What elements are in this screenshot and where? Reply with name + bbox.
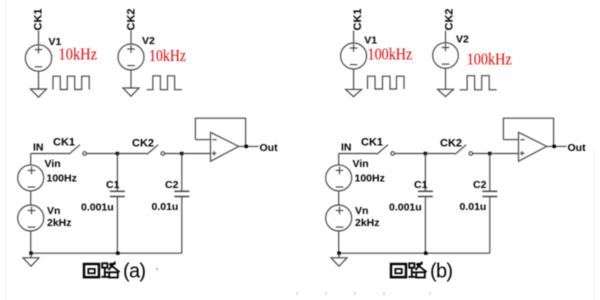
switch CK1 (S1)	[69, 145, 87, 156]
svg-text:CK1: CK1	[352, 8, 364, 30]
wire switch CK1 to node 1 (b)	[395, 153, 426, 155]
svg-text:100kHz: 100kHz	[467, 50, 512, 69]
svg-text:IN: IN	[341, 142, 352, 154]
wire switch CK2 to node 2 (b)	[473, 153, 490, 155]
wire node 2 to op-amp input	[182, 153, 211, 155]
wire ground rail	[31, 252, 182, 254]
svg-text:0.001u: 0.001u	[81, 202, 114, 214]
junction rail C1	[116, 252, 119, 255]
junction node 2 (b)	[488, 152, 491, 155]
junction output node (b)	[553, 145, 556, 148]
svg-text:100Hz: 100Hz	[47, 172, 77, 184]
voltage source V2	[118, 44, 144, 70]
wire V1 top	[38, 31, 40, 45]
wire node 1 to switch CK2 (b)	[425, 153, 455, 155]
capacitor C2	[174, 154, 189, 254]
wire node 1 to switch CK2	[117, 153, 147, 155]
svg-text:Vin: Vin	[353, 158, 369, 170]
wire ground stub (b)	[338, 253, 340, 258]
waveform CK2 (right block)	[460, 76, 497, 90]
svg-text:2kHz: 2kHz	[47, 217, 72, 229]
wire V2 top (right block)	[445, 31, 447, 44]
svg-text:CK2: CK2	[125, 8, 137, 30]
svg-text:V2: V2	[456, 34, 469, 46]
glyph KAI (box-in-box) (b)	[391, 264, 406, 277]
wire ground rail (b)	[339, 252, 490, 254]
capacitor C1	[110, 154, 125, 254]
junction node 2	[180, 152, 183, 155]
wire node 2 to op-amp input (b)	[490, 153, 519, 155]
wire feedback loop U1 (b)	[503, 118, 553, 146]
junction node 1	[116, 152, 119, 155]
wire Vin to Vn	[30, 191, 32, 205]
wire V2 bottom (right block)	[445, 68, 447, 89]
voltage source V1 (right block)	[341, 43, 367, 69]
svg-text:0.01u: 0.01u	[460, 201, 487, 213]
waveform CK1	[53, 76, 89, 89]
wire V1 top (right block)	[353, 31, 355, 44]
stray dot after caption (a)	[156, 268, 158, 270]
ground (V1 right)	[346, 89, 362, 96]
waveform CK2	[147, 76, 182, 90]
svg-text:(a): (a)	[123, 261, 145, 283]
ground (V2 right)	[438, 89, 454, 96]
wire IN down to Vin	[30, 154, 32, 165]
svg-text:C1: C1	[106, 179, 120, 191]
glyph RO (road) (b)	[408, 262, 426, 278]
svg-text:Out: Out	[568, 142, 587, 154]
faint page border line left	[5, 0, 7, 300]
switch CK2 (S2)	[147, 145, 165, 156]
wire op-amp inverting input stub	[195, 139, 210, 141]
junction node 1 (b)	[424, 152, 427, 155]
junction rail left	[29, 252, 32, 255]
svg-text:0.001u: 0.001u	[389, 202, 422, 214]
svg-text:100kHz: 100kHz	[368, 45, 413, 64]
wire ground stub	[30, 253, 32, 258]
op-amp U1 (b)	[519, 132, 547, 161]
svg-text:2kHz: 2kHz	[355, 217, 380, 229]
wire op-amp output	[239, 145, 259, 147]
ground (V1)	[31, 89, 47, 97]
voltage source Vin (b)	[326, 165, 352, 191]
faint cropped text specks at bottom	[296, 292, 431, 295]
junction rail C1 (b)	[424, 252, 427, 255]
wire IN down to Vin (b)	[338, 154, 340, 165]
faint page border line right	[594, 150, 596, 300]
svg-text:C2: C2	[165, 179, 179, 191]
wire switch CK1 to node 1	[87, 153, 118, 155]
capacitor C2 (b)	[482, 154, 497, 254]
wire op-amp output (b)	[547, 145, 567, 147]
svg-text:IN: IN	[33, 142, 44, 154]
svg-text:Vn: Vn	[355, 205, 368, 217]
svg-text:10kHz: 10kHz	[149, 46, 186, 65]
svg-text:Vn: Vn	[47, 205, 60, 217]
voltage source Vn (b)	[326, 205, 352, 231]
svg-text:CK1: CK1	[361, 137, 383, 149]
wire Vin to Vn (b)	[338, 191, 340, 205]
op-amp U1	[211, 132, 239, 161]
wire Vn down to rail (b)	[338, 231, 340, 253]
ground (circuit b)	[331, 258, 347, 267]
svg-text:10kHz: 10kHz	[59, 45, 98, 64]
svg-text:Out: Out	[260, 142, 279, 154]
svg-text:Vin: Vin	[45, 158, 61, 170]
voltage source Vn	[18, 205, 44, 231]
svg-text:CK1: CK1	[32, 8, 44, 30]
switch CK1 (S1b)	[377, 145, 395, 156]
svg-text:C1: C1	[414, 179, 428, 191]
capacitor C1 (b)	[418, 154, 433, 254]
svg-text:CK2: CK2	[132, 138, 154, 150]
wire V2 top	[130, 31, 132, 45]
svg-text:100Hz: 100Hz	[355, 172, 385, 184]
wire V2 bottom	[130, 70, 132, 88]
wire Vn down to rail	[30, 231, 32, 253]
ground (V2)	[123, 88, 139, 96]
junction rail left (b)	[337, 252, 340, 255]
svg-text:(b): (b)	[430, 261, 452, 283]
voltage source V1	[25, 45, 51, 71]
svg-text:CK2: CK2	[444, 8, 456, 30]
svg-text:CK1: CK1	[53, 137, 75, 149]
wire IN to switch CK1 (b)	[339, 153, 377, 155]
wire switch CK2 to node 2	[165, 153, 182, 155]
wire feedback loop U1	[195, 118, 245, 146]
svg-text:C2: C2	[473, 179, 487, 191]
wire op-amp inverting input stub (b)	[503, 139, 518, 141]
wire IN to switch CK1	[31, 153, 69, 155]
wire V1 bottom	[38, 71, 40, 89]
svg-text:0.01u: 0.01u	[152, 201, 179, 213]
junction output node	[245, 145, 248, 148]
glyph RO (road)	[101, 262, 119, 278]
switch CK2 (S2b)	[455, 145, 473, 156]
voltage source V2 (right block)	[433, 43, 459, 69]
glyph KAI (box-in-box)	[84, 264, 99, 277]
wire V1 bottom (right block)	[353, 69, 355, 89]
ground (circuit)	[23, 258, 39, 267]
voltage source Vin	[18, 165, 44, 191]
svg-text:CK2: CK2	[440, 138, 462, 150]
waveform CK1 (right block)	[368, 76, 405, 89]
